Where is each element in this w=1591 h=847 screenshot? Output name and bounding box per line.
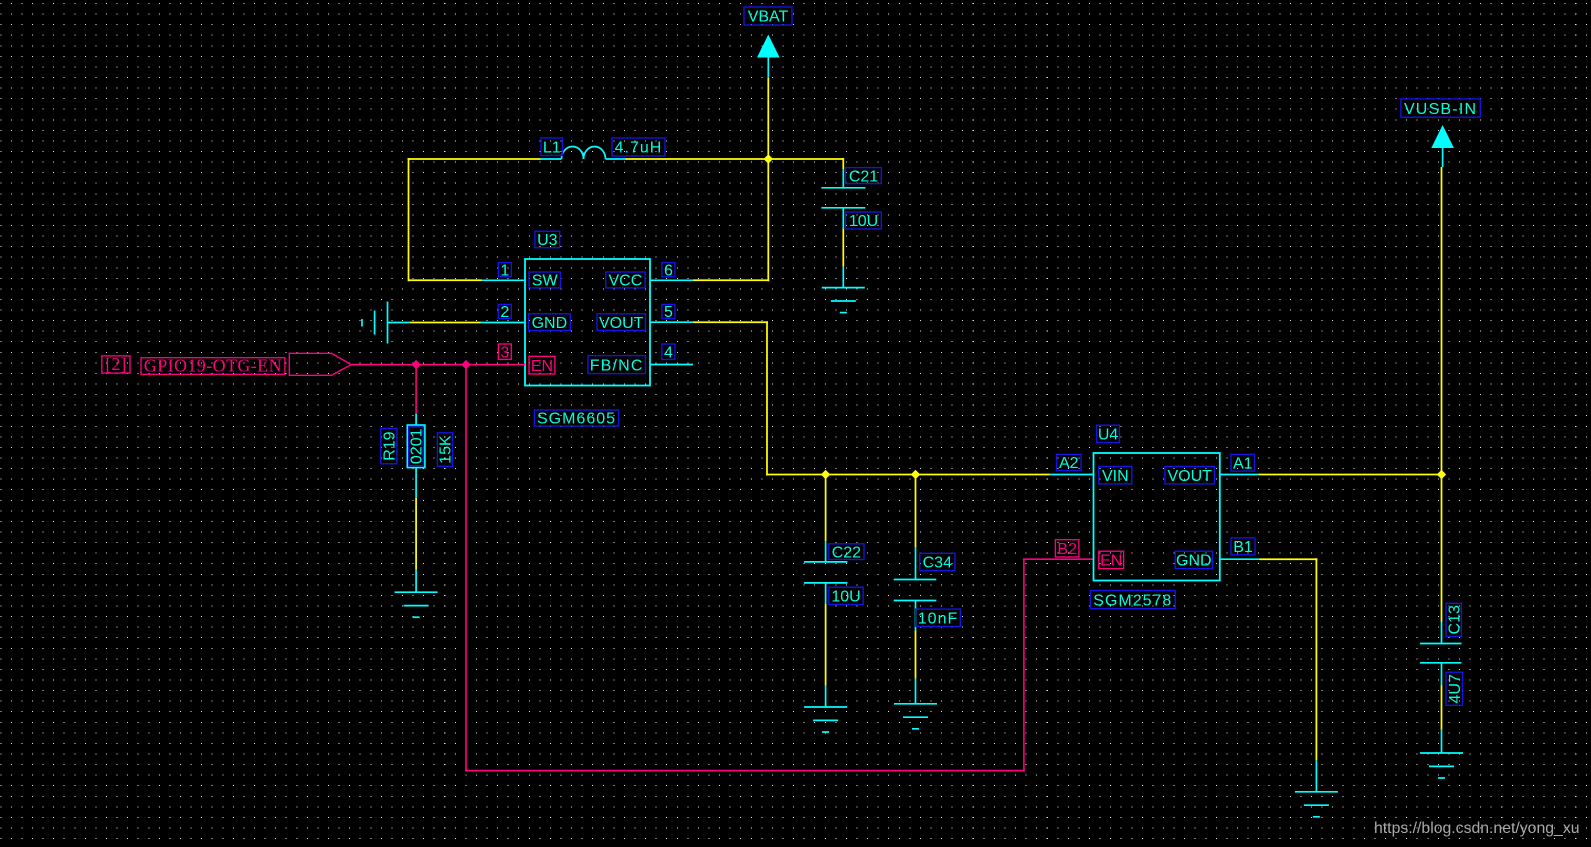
svg-text:10U: 10U — [849, 213, 878, 230]
svg-text:5: 5 — [664, 304, 673, 321]
pin 6 VCC — [650, 279, 693, 281]
wire U4 GND vertical — [1315, 558, 1317, 760]
pin number 2 — [498, 304, 511, 321]
wire R19 to ground — [415, 498, 417, 570]
designator C22 — [829, 544, 864, 562]
wire to C22 — [825, 475, 827, 542]
pin name EN — [529, 356, 555, 375]
svg-text:SGM2578: SGM2578 — [1093, 592, 1172, 609]
pin number A2 — [1057, 454, 1082, 472]
svg-text:C13: C13 — [1446, 605, 1463, 634]
junction C34 — [911, 470, 920, 479]
svg-text:GPIO19-OTG-EN: GPIO19-OTG-EN — [144, 356, 282, 376]
svg-text:6: 6 — [664, 262, 673, 279]
svg-text:10U: 10U — [831, 589, 860, 606]
wire VUSB vertical — [1441, 167, 1443, 475]
capacitor C21 — [821, 169, 865, 229]
svg-text:SW: SW — [532, 273, 559, 290]
power symbol VBAT arrow — [757, 35, 780, 79]
designator R19 — [381, 428, 399, 463]
svg-text:R19: R19 — [382, 431, 399, 460]
wire VCC to VBAT vertical — [767, 159, 769, 281]
svg-text:SGM6605: SGM6605 — [537, 411, 616, 428]
svg-text:A1: A1 — [1233, 455, 1253, 472]
wire VBAT vertical — [767, 78, 769, 159]
wire EN to R19 — [415, 365, 417, 414]
svg-text:2: 2 — [500, 304, 509, 321]
pin name GND — [529, 314, 571, 332]
footprint 0201 — [409, 427, 426, 466]
junction EN drop — [461, 360, 470, 369]
pin B1 GND — [1219, 558, 1260, 560]
pin name VCC — [606, 272, 645, 290]
svg-text:VOUT: VOUT — [1167, 468, 1212, 485]
part number SGM2578 — [1090, 591, 1175, 610]
ground below C34 — [894, 679, 937, 729]
svg-text:4.7uH: 4.7uH — [615, 140, 663, 157]
svg-text:GND: GND — [1176, 553, 1212, 570]
svg-text:A2: A2 — [1059, 455, 1079, 472]
sheet entry [2] — [102, 354, 130, 374]
ground below R19 — [395, 570, 438, 618]
pin name VOUT (U4) — [1165, 467, 1215, 485]
svg-text:FB/NC: FB/NC — [590, 357, 644, 374]
junction VUSB — [1437, 470, 1446, 479]
inductor L1 — [541, 146, 626, 159]
svg-text:B1: B1 — [1233, 539, 1253, 556]
wire C34 to ground — [915, 631, 917, 679]
pin 1 SW — [482, 279, 526, 281]
pin 5 VOUT — [650, 321, 693, 323]
pin name VIN — [1099, 467, 1132, 485]
wire SW net: bottom to pin 1 — [409, 279, 482, 281]
pin number 6 — [662, 262, 675, 279]
wire EN net: bottom horizontal — [465, 770, 1025, 772]
value 10U — [846, 212, 882, 230]
pin name EN (U4) — [1099, 551, 1124, 569]
wire U4 VOUT to VUSB rail — [1259, 474, 1442, 476]
wire VOUT horizontal — [693, 321, 768, 323]
junction C22 — [821, 470, 830, 479]
svg-text:VOUT: VOUT — [599, 315, 644, 332]
svg-text:VCC: VCC — [609, 273, 643, 290]
svg-text:4: 4 — [664, 344, 673, 361]
ground symbol left of pin 2 (rotated) — [362, 302, 409, 344]
wire GND pin to ground — [409, 322, 480, 324]
capacitor C13 — [1420, 622, 1462, 686]
svg-text:https://blog.csdn.net/yong_xu: https://blog.csdn.net/yong_xu — [1374, 820, 1580, 837]
designator C13 — [1446, 603, 1463, 636]
value 15K — [437, 433, 454, 467]
net label VUSB-IN — [1401, 99, 1480, 118]
capacitor C34 — [894, 548, 937, 631]
pin 3 EN — [466, 364, 525, 366]
svg-text:10nF: 10nF — [918, 611, 958, 628]
svg-text:VIN: VIN — [1102, 468, 1129, 485]
svg-text:3: 3 — [500, 344, 509, 361]
svg-text:[2]: [2] — [105, 354, 126, 374]
svg-text:L1: L1 — [543, 139, 561, 156]
pin number 3 — [498, 344, 511, 361]
pin name GND (U4) — [1175, 551, 1212, 569]
pin name FB/NC — [588, 356, 645, 375]
svg-text:B2: B2 — [1057, 541, 1077, 558]
designator C21 — [846, 168, 882, 186]
wire C21 to ground — [842, 229, 844, 267]
wire EN net: up to U4 — [1023, 559, 1025, 771]
resistor R19 — [407, 414, 425, 498]
ground below C21 — [822, 267, 865, 313]
svg-text:VBAT: VBAT — [748, 9, 789, 26]
value 4U7 — [1446, 672, 1464, 705]
svg-text:4U7: 4U7 — [1447, 674, 1464, 703]
ground below U4 GND — [1295, 760, 1338, 816]
svg-text:EN: EN — [531, 358, 553, 375]
svg-text:U3: U3 — [537, 232, 558, 249]
wire VCC horizontal — [693, 279, 769, 281]
power symbol VUSB-IN arrow — [1431, 125, 1454, 167]
pin A2 VIN — [1050, 474, 1094, 476]
ground below C13 — [1420, 730, 1463, 778]
pin number A1 — [1231, 454, 1255, 472]
pin name VOUT — [597, 314, 645, 332]
wire SW net: top horizontal to L1 — [408, 158, 541, 160]
designator U4 — [1097, 425, 1120, 443]
wire EN net: into U4 EN pin — [1023, 558, 1093, 560]
wire VOUT rail — [766, 474, 1050, 476]
designator C34 — [920, 553, 955, 571]
wire U4 GND horizontal — [1260, 558, 1318, 560]
svg-text:C22: C22 — [832, 544, 861, 561]
wire EN net: long vertical — [465, 365, 467, 772]
svg-text:C34: C34 — [923, 555, 952, 572]
pin 4 FB/NC — [650, 364, 693, 366]
svg-text:EN: EN — [1100, 553, 1122, 570]
part number SGM6605 — [534, 410, 618, 428]
wire EN net horizontal — [351, 364, 466, 366]
pin number 5 — [662, 304, 675, 321]
value 10nF — [916, 609, 961, 627]
designator U3 — [535, 231, 560, 249]
wire C13 to ground — [1441, 686, 1443, 730]
wire SW net: left vertical — [408, 158, 410, 281]
value 4.7uH — [612, 138, 665, 157]
pin number 1 — [498, 262, 511, 279]
op-amp/regulator U3 body — [525, 259, 650, 386]
svg-text:GND: GND — [532, 315, 568, 332]
svg-text:15K: 15K — [438, 435, 455, 464]
junction at VBAT — [764, 154, 773, 163]
port symbol arrow — [289, 353, 351, 375]
svg-text:C21: C21 — [849, 168, 878, 185]
pin number 4 — [662, 344, 675, 361]
regulator U4 body — [1094, 453, 1220, 581]
wire C21 drop — [842, 158, 844, 169]
svg-text:U4: U4 — [1098, 427, 1119, 444]
pin number B1 — [1231, 538, 1255, 556]
wire C22 to ground — [825, 604, 827, 686]
pin name SW — [529, 272, 560, 290]
wire VOUT vertical — [766, 321, 768, 475]
designator L1 — [541, 138, 563, 156]
svg-text:1: 1 — [500, 262, 509, 279]
capacitor C22 — [804, 541, 847, 603]
wire to C34 — [915, 475, 917, 548]
port name GPIO19-OTG-EN — [141, 356, 285, 376]
pin number B2 — [1055, 540, 1079, 558]
pin A1 VOUT — [1219, 474, 1259, 476]
value 10U (C22) — [829, 587, 863, 605]
net label VBAT — [744, 7, 792, 26]
svg-text:0201: 0201 — [409, 428, 426, 464]
pin 2 GND — [481, 322, 526, 324]
wire VUSB to C13 — [1441, 475, 1443, 623]
wire VBAT net horizontal — [626, 158, 844, 160]
svg-text:VUSB-IN: VUSB-IN — [1404, 101, 1477, 118]
ground below C22 — [804, 686, 847, 732]
junction R19 — [411, 360, 420, 369]
